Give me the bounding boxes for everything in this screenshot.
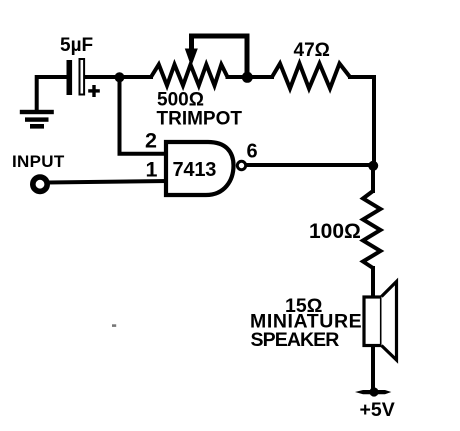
svg-text:SPEAKER: SPEAKER	[251, 329, 340, 351]
svg-text:TRIMPOT: TRIMPOT	[157, 108, 243, 129]
svg-text:6: 6	[247, 141, 258, 163]
svg-text:+5V: +5V	[360, 399, 395, 421]
svg-text:7413: 7413	[173, 159, 217, 181]
svg-text:1: 1	[146, 157, 158, 181]
svg-text:100Ω: 100Ω	[309, 220, 361, 243]
svg-text:5µF: 5µF	[60, 35, 93, 56]
svg-text:47Ω: 47Ω	[294, 40, 330, 61]
svg-text:INPUT: INPUT	[12, 152, 65, 171]
svg-text:2: 2	[145, 128, 157, 152]
